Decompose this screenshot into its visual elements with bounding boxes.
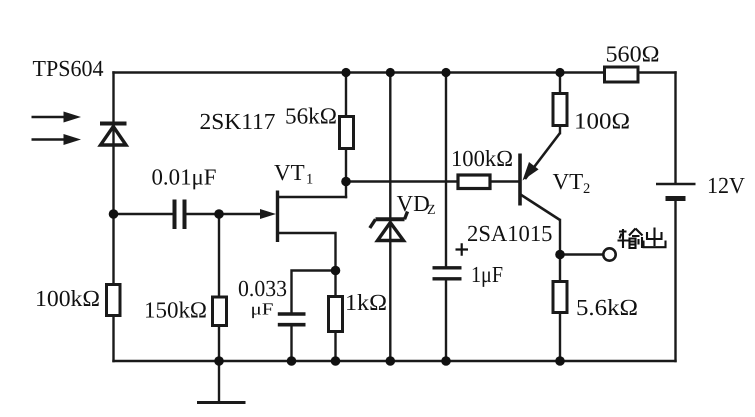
node drain	[341, 177, 351, 187]
wire output lead	[560, 253, 603, 255]
wire right rail upper (to battery)	[674, 73, 676, 184]
capacitor C1 0.01uF (plates)	[175, 200, 185, 230]
zener diode VDz	[370, 212, 408, 241]
wire VT1 drain lead	[278, 196, 347, 198]
wire 100ohm branch	[559, 73, 561, 134]
svg-text:100kΩ: 100kΩ	[35, 286, 100, 311]
battery 12V short thick plate	[666, 196, 686, 201]
wire 5.6k branch	[559, 255, 561, 362]
node bottom 1uF	[441, 356, 451, 366]
resistor 100k left (vertical box)	[107, 285, 121, 316]
wire bottom rail	[114, 360, 676, 362]
label 1uF	[471, 262, 503, 287]
label 100kOhm right	[451, 146, 513, 171]
svg-text:2SK117: 2SK117	[200, 109, 276, 134]
resistor 100 (vertical box)	[553, 94, 567, 126]
resistor 100k right (horizontal box)	[458, 175, 490, 189]
VT2 emitter arrowhead	[523, 162, 539, 181]
label VDz	[397, 191, 436, 218]
svg-text:2: 2	[583, 181, 590, 197]
svg-text:5.6kΩ: 5.6kΩ	[576, 295, 638, 320]
node top VDz	[386, 68, 395, 77]
wire gate line left (node to C1)	[114, 213, 173, 215]
label chu (output char 2, hand-drawn CJK)	[644, 228, 666, 248]
wire VDz branch	[389, 73, 391, 362]
resistor R 56k (vertical box)	[340, 117, 354, 149]
svg-text:Z: Z	[427, 203, 436, 218]
node source	[331, 266, 341, 276]
wire base line (drain node to VT2 base)	[346, 180, 519, 182]
svg-text:0.01μF: 0.01μF	[152, 165, 217, 190]
svg-text:56kΩ: 56kΩ	[285, 104, 337, 129]
wire right rail lower (from battery)	[674, 199, 676, 362]
label 2SA1015	[467, 221, 553, 246]
svg-text:VT: VT	[274, 160, 305, 185]
svg-text:100kΩ: 100kΩ	[451, 146, 513, 171]
label 1kOhm	[345, 290, 387, 315]
node top 56k	[341, 68, 350, 77]
label 5.6kOhm	[576, 295, 638, 320]
label shu (output char 1, hand-drawn CJK)	[618, 229, 643, 249]
VT2 collector lead	[521, 195, 561, 221]
output terminal circle	[603, 248, 615, 260]
label plus (1uF polarity)	[456, 243, 469, 255]
resistor 560 (horizontal box)	[605, 67, 639, 82]
wire 56k branch	[345, 73, 347, 198]
wire ground stem	[218, 361, 220, 403]
svg-text:VD: VD	[397, 191, 430, 216]
svg-text:2SA1015: 2SA1015	[467, 221, 553, 246]
resistor 5.6k (vertical box)	[553, 282, 567, 313]
svg-text:100Ω: 100Ω	[574, 109, 630, 134]
wire source node to 0.033 cap	[292, 271, 336, 313]
svg-text:1: 1	[306, 172, 313, 188]
svg-text:μF: μF	[251, 300, 274, 319]
node output	[555, 250, 565, 260]
wire 1k branch	[334, 271, 336, 362]
label TPS604	[33, 56, 104, 81]
wire left rail	[112, 73, 114, 362]
wire VT1 source lead	[278, 233, 336, 271]
node bottom 5.6k	[555, 356, 565, 366]
label 56kOhm	[285, 104, 337, 129]
wire top rail	[114, 71, 676, 73]
label VT1	[274, 160, 313, 188]
node top 1uF	[441, 68, 450, 77]
node top 100ohm	[555, 68, 564, 77]
battery 12V long plate	[656, 183, 696, 186]
node bottom 1k	[331, 356, 341, 366]
resistor 1k (vertical box)	[329, 297, 343, 332]
label 12V	[707, 173, 745, 198]
ground	[197, 401, 246, 404]
VT2 emitter lead (arrow into base)	[525, 133, 560, 179]
svg-text:560Ω: 560Ω	[606, 42, 660, 67]
svg-text:TPS604: TPS604	[33, 56, 104, 81]
capacitor 0.033uF (plates)	[278, 314, 306, 325]
svg-text:12V: 12V	[707, 173, 745, 198]
node bottom ground	[214, 356, 224, 366]
wire 0.033 cap bottom stem	[290, 327, 292, 362]
svg-text:1kΩ: 1kΩ	[345, 290, 387, 315]
transistor VT2 2SA1015 base bar	[518, 154, 522, 206]
svg-text:0.033: 0.033	[238, 276, 287, 301]
label 150kOhm	[144, 298, 207, 323]
capacitor 1uF (plates)	[433, 268, 462, 279]
label 100Ohm	[574, 109, 630, 134]
wire 1uF branch	[445, 73, 447, 362]
VT1 gate arrowhead	[260, 209, 276, 219]
label 0.033	[238, 276, 287, 301]
wire 150k branch	[218, 214, 220, 361]
node left gate branch	[109, 209, 119, 219]
svg-text:150kΩ: 150kΩ	[144, 298, 207, 323]
label VT2	[553, 169, 591, 197]
resistor 150k (vertical box)	[213, 297, 227, 326]
svg-text:VT: VT	[553, 169, 584, 194]
light arrow upper	[32, 112, 82, 123]
label 2SK117	[200, 109, 276, 134]
photodiode TPS604	[100, 124, 127, 146]
label 560Ohm	[606, 42, 660, 67]
node bottom VDz	[386, 356, 396, 366]
wire VT2 collector to output node	[559, 220, 561, 255]
label uF (0.033)	[251, 300, 274, 319]
label 0.01uF	[152, 165, 217, 190]
svg-text:1μF: 1μF	[471, 262, 503, 287]
wire gate line right (C1 to VT1 gate)	[187, 213, 263, 215]
node gate 150k	[214, 209, 224, 219]
transistor VT1 JFET 2SK117	[276, 191, 279, 243]
light arrow lower	[32, 134, 82, 145]
node bottom 0.033	[287, 356, 297, 366]
label 100kOhm left	[35, 286, 100, 311]
